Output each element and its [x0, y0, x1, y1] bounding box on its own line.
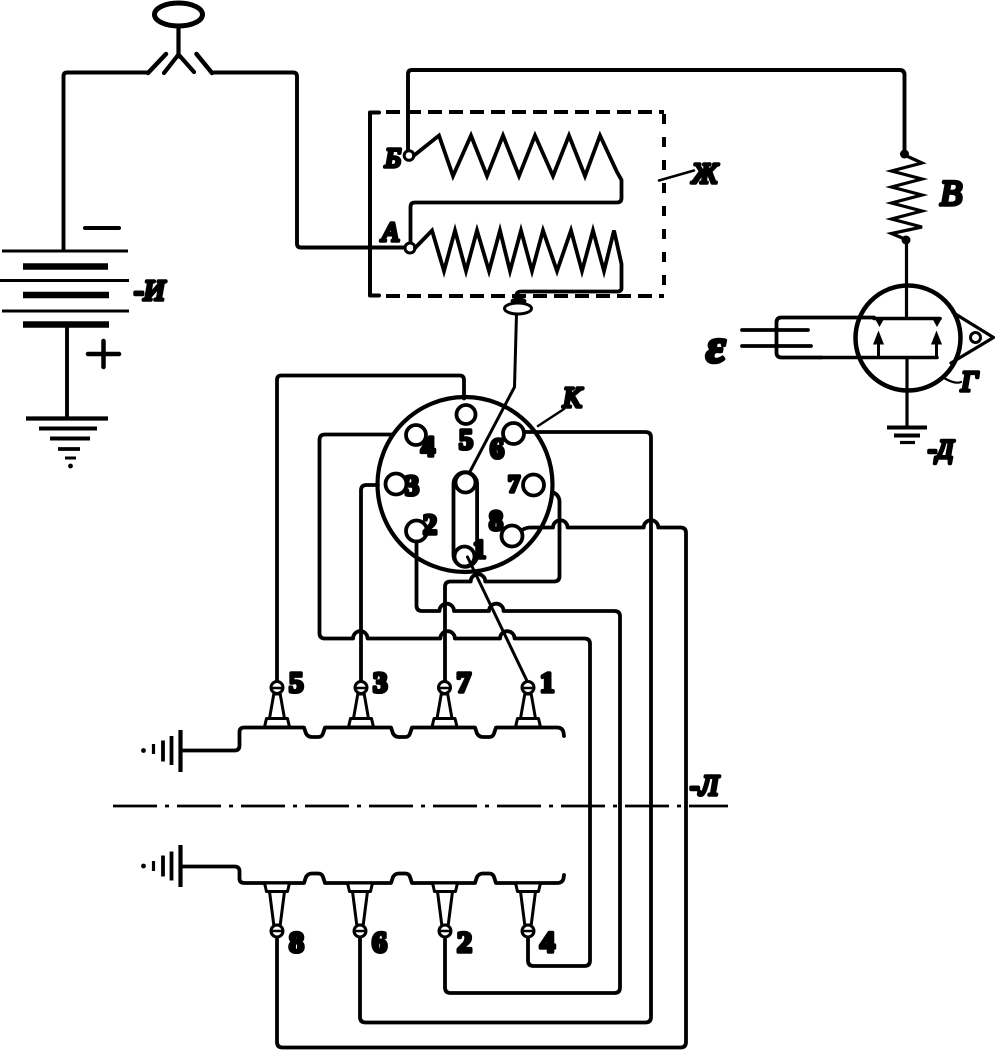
distributor terminal 8 circle [502, 526, 523, 547]
spark plug 5 (top bank) [265, 682, 290, 728]
rotor top circle [456, 473, 476, 493]
svg-text:Г: Г [960, 366, 979, 398]
spark plug 2 (bottom bank) [433, 883, 458, 937]
distributor terminal 5 circle [457, 405, 476, 424]
coil Zh dashed box bottom edge [386, 294, 664, 298]
wire terminal 8 to plug 8 [277, 520, 686, 1047]
coil Zh dashed box right edge [662, 114, 666, 296]
svg-text:1: 1 [540, 667, 555, 699]
spark plug 7 (top bank) [432, 682, 457, 728]
svg-text:8: 8 [489, 506, 503, 537]
svg-text:4: 4 [540, 926, 555, 959]
distributor terminal 4 circle [406, 425, 426, 445]
coil Zh dashed box left bracket [370, 113, 379, 296]
battery plus sign [88, 341, 119, 367]
coil terminal B circle [404, 151, 414, 161]
battery I plate 6 [23, 321, 109, 328]
svg-text:4: 4 [421, 432, 435, 463]
ignition switch stem [176, 26, 180, 57]
wire terminal 4 to plug 4 [320, 435, 591, 967]
battery I plate 2 [23, 263, 108, 270]
distributor terminal 1 circle [455, 547, 475, 567]
top bank edge with plug seats [182, 728, 564, 751]
wire terminal 2 to plug 2 [417, 542, 621, 994]
battery I plate 4 [23, 292, 109, 299]
breaker fixed contact bar [874, 317, 940, 321]
svg-text:6: 6 [372, 926, 387, 959]
distributor terminal 3 circle [386, 474, 407, 495]
battery I plate 1 [2, 250, 128, 253]
node dot bottom of resistor [902, 236, 911, 245]
battery minus sign [85, 226, 119, 230]
svg-text:7: 7 [508, 472, 520, 498]
top bank ground [141, 730, 180, 772]
cam ring [971, 333, 981, 343]
breaker moving bar to capacitor [820, 356, 937, 360]
coil terminal A circle [405, 243, 415, 253]
wire terminal 3 to plug 3 [361, 485, 378, 681]
label Zh with leader [659, 171, 694, 181]
ignition switch right fixed contact [197, 54, 213, 73]
svg-text:2: 2 [423, 510, 437, 541]
svg-text:-Л: -Л [690, 771, 720, 802]
svg-text:5: 5 [459, 425, 473, 456]
distributor terminal 7 circle [523, 475, 544, 496]
HV wire coil to rotor [469, 314, 517, 474]
spark plug 4 (bottom bank) [516, 883, 541, 937]
label G with leader [944, 378, 961, 383]
spark plug 8 (bottom bank) [265, 883, 290, 937]
ground D [887, 428, 927, 443]
spark plug 1 (top bank) [516, 682, 541, 728]
battery I plate 5 [2, 310, 129, 313]
wire switch to coil terminal A [212, 73, 405, 248]
wire terminal 7 to plug 7 [445, 492, 560, 681]
coil HV output terminal [511, 297, 527, 304]
svg-text:-Д: -Д [928, 435, 955, 464]
coil Zh dashed box top edge [386, 110, 664, 114]
capacitor E plates [742, 330, 811, 346]
resistor V zigzag [892, 155, 923, 240]
breaker contact tips [875, 318, 943, 327]
distributor K big circle [378, 397, 553, 572]
svg-text:8: 8 [289, 926, 304, 959]
bottom bank edge with plug seats [182, 867, 564, 884]
svg-text:6: 6 [490, 434, 504, 465]
breaker left arrow [877, 344, 880, 357]
svg-text:7: 7 [457, 667, 472, 699]
wire terminal 5 to plug 5 [277, 376, 464, 682]
wire switch to battery [64, 73, 149, 251]
svg-text:В: В [940, 173, 962, 213]
ignition switch knob oval [155, 3, 203, 26]
ignition switch movable legs [164, 55, 194, 74]
distributor terminal 6 circle [503, 423, 524, 444]
spark plug 3 (top bank) [349, 682, 374, 728]
ground under battery [26, 419, 108, 469]
svg-text:ε: ε [706, 320, 726, 373]
engine centerline L [113, 805, 728, 808]
svg-text:Б: Б [384, 143, 401, 173]
coil secondary winding zigzag [411, 136, 622, 244]
spark plug 6 (bottom bank) [348, 883, 373, 937]
label K with leader [538, 409, 564, 426]
node dot top of resistor [900, 150, 909, 159]
svg-text:Ж: Ж [691, 159, 719, 190]
wire breaker to ground D [905, 358, 908, 428]
cam triangle [951, 313, 994, 364]
coil primary winding zigzag [415, 231, 622, 300]
rotor arm wire to plug 1 [468, 557, 529, 683]
svg-text:А: А [380, 217, 399, 247]
distributor terminal 2 circle [406, 521, 427, 542]
svg-text:3: 3 [405, 471, 419, 502]
ignition switch left fixed contact [148, 54, 166, 73]
breaker right arrow [935, 344, 938, 357]
wire terminal 6 to plug 6 [360, 432, 651, 1023]
battery I plate 3 [0, 279, 129, 282]
breaker G circle [856, 286, 961, 391]
svg-text:-И: -И [134, 275, 167, 307]
rotor capsule [454, 472, 478, 567]
wire battery to ground [65, 327, 69, 418]
svg-text:2: 2 [457, 926, 472, 959]
svg-text:1: 1 [473, 535, 486, 564]
wire resistor to breaker [905, 240, 908, 318]
bottom bank ground [141, 845, 180, 887]
svg-text:К: К [562, 383, 583, 414]
svg-text:5: 5 [289, 667, 304, 699]
capacitor E housing [777, 318, 875, 358]
wire terminal B up to top bus [408, 70, 905, 151]
svg-text:3: 3 [373, 667, 388, 699]
